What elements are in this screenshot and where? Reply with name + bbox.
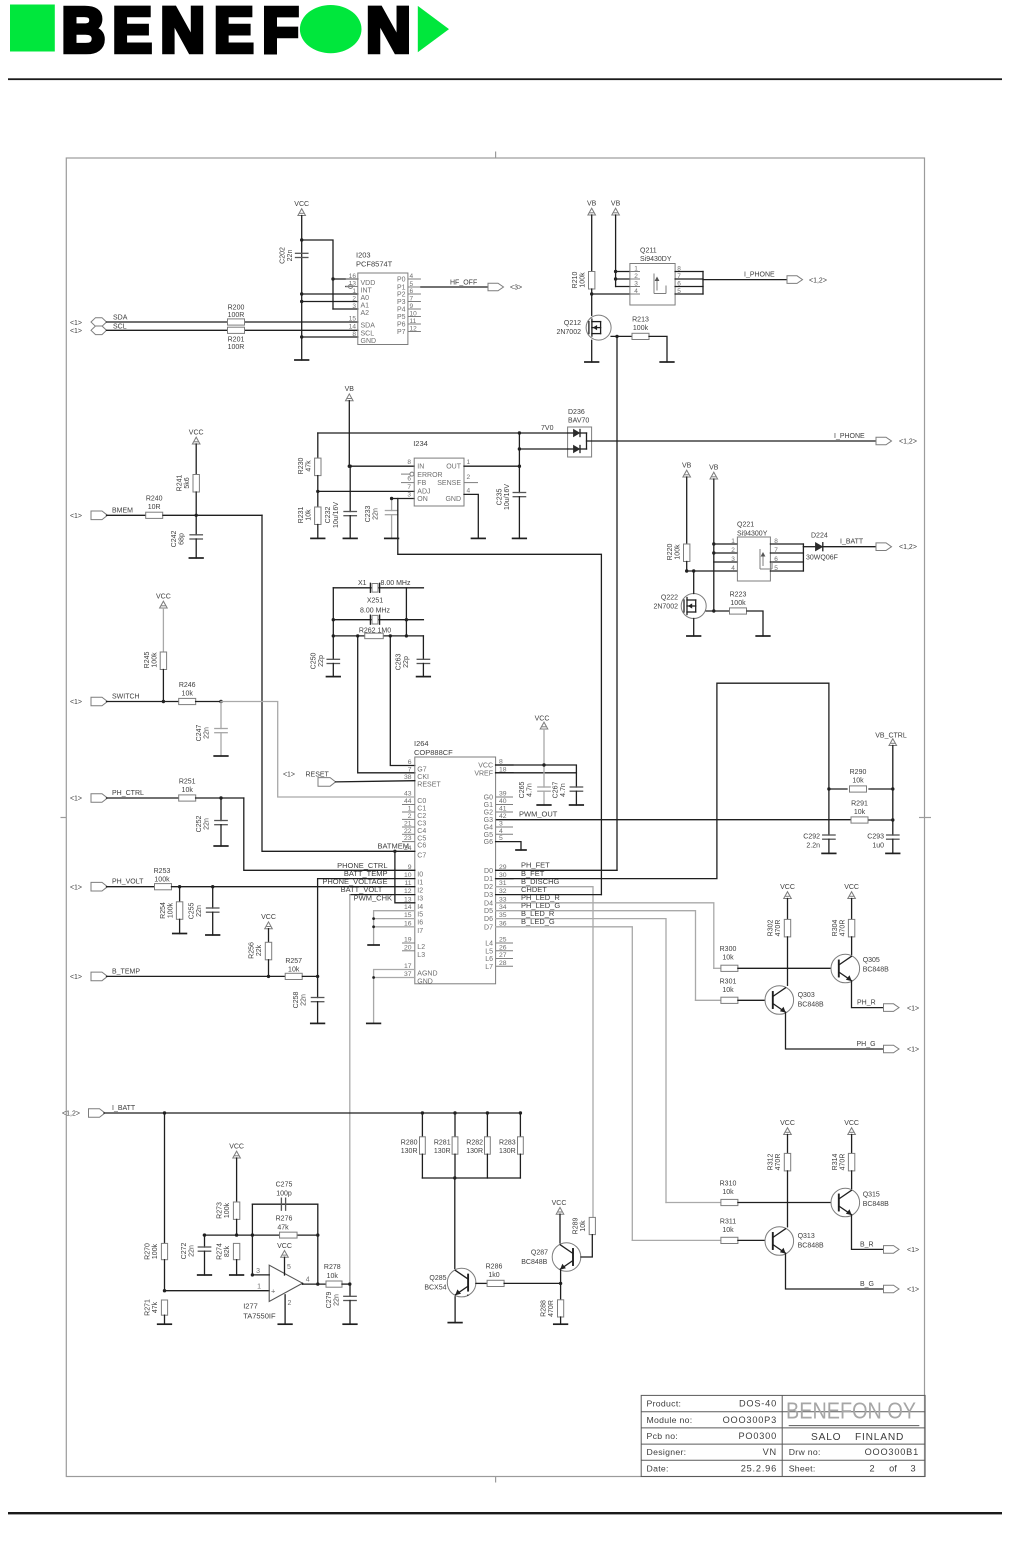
svg-text:130R: 130R (401, 1148, 418, 1155)
svg-text:2: 2 (731, 547, 735, 554)
svg-text:C4: C4 (417, 828, 426, 835)
svg-text:22n: 22n (196, 905, 203, 917)
svg-text:VCC: VCC (277, 1243, 292, 1250)
svg-text:22n: 22n (287, 250, 294, 262)
svg-text:P1: P1 (397, 284, 406, 291)
svg-text:130R: 130R (434, 1148, 451, 1155)
svg-text:100k: 100k (154, 877, 170, 884)
svg-text:10k: 10k (182, 691, 194, 698)
svg-text:PCF8574T: PCF8574T (356, 260, 393, 269)
svg-text:R253: R253 (154, 868, 171, 875)
svg-text:F: F (262, 0, 299, 66)
svg-text:47k: 47k (152, 1301, 159, 1313)
svg-text:1u0: 1u0 (872, 843, 884, 850)
svg-text:22k: 22k (256, 944, 263, 956)
svg-text:N: N (366, 0, 411, 66)
svg-text:Pcb no:: Pcb no: (647, 1431, 679, 1441)
svg-text:BC848B: BC848B (798, 1002, 824, 1009)
svg-text:VB: VB (611, 201, 621, 208)
svg-text:SCL: SCL (361, 330, 375, 337)
svg-text:I1: I1 (417, 880, 423, 887)
svg-text:22n: 22n (189, 1245, 196, 1257)
svg-text:C242: C242 (171, 531, 178, 548)
svg-text:C252: C252 (196, 816, 203, 833)
svg-text:RESET: RESET (417, 782, 441, 789)
svg-text:C255: C255 (189, 903, 196, 920)
svg-text:10k: 10k (722, 1189, 734, 1196)
svg-text:Q212: Q212 (564, 320, 581, 327)
svg-text:1: 1 (352, 288, 356, 295)
svg-text:G3: G3 (484, 817, 493, 824)
svg-text:R310: R310 (720, 1181, 737, 1188)
svg-text:R302: R302 (768, 920, 775, 937)
svg-text:L7: L7 (485, 964, 493, 971)
svg-text:7: 7 (408, 766, 412, 773)
svg-text:Q303: Q303 (798, 992, 815, 999)
svg-text:I_PHONE: I_PHONE (834, 433, 865, 440)
svg-text:10R: 10R (148, 504, 161, 511)
svg-text:C279: C279 (326, 1292, 333, 1309)
svg-text:C275: C275 (276, 1182, 293, 1189)
svg-text:I6: I6 (417, 920, 423, 927)
svg-text:8.00 MHz: 8.00 MHz (381, 580, 411, 587)
svg-text:VCC: VCC (229, 1144, 244, 1151)
svg-text:130R: 130R (499, 1148, 516, 1155)
svg-text:P2: P2 (397, 291, 406, 298)
svg-text:VN: VN (763, 1447, 777, 1457)
svg-text:B_R: B_R (860, 1241, 874, 1248)
svg-text:VB: VB (709, 465, 719, 472)
svg-text:1: 1 (257, 1284, 261, 1291)
svg-text:TA7550IF: TA7550IF (243, 1311, 276, 1320)
svg-text:<1>: <1> (283, 772, 295, 779)
svg-text:I_BATT: I_BATT (840, 539, 864, 546)
svg-text:SENSE: SENSE (437, 480, 461, 487)
svg-text:I264: I264 (414, 739, 429, 748)
svg-text:3: 3 (352, 303, 356, 310)
svg-text:BC848B: BC848B (521, 1259, 547, 1266)
svg-text:VREF: VREF (474, 770, 493, 777)
svg-text:R291: R291 (851, 801, 868, 808)
svg-text:100k: 100k (151, 652, 158, 668)
svg-text:A2: A2 (361, 310, 370, 317)
svg-text:R290: R290 (850, 769, 867, 776)
svg-text:8: 8 (407, 459, 411, 466)
svg-text:G5: G5 (484, 832, 493, 839)
svg-text:PH_VOLT: PH_VOLT (112, 879, 144, 886)
svg-text:22n: 22n (204, 727, 211, 739)
svg-text:Q305: Q305 (863, 957, 880, 964)
svg-text:B_TEMP: B_TEMP (112, 968, 140, 975)
svg-text:100k: 100k (152, 1243, 159, 1259)
svg-text:VCC: VCC (294, 201, 309, 208)
svg-text:B: B (62, 0, 106, 66)
svg-text:5k6: 5k6 (184, 477, 191, 488)
svg-text:C5: C5 (417, 835, 426, 842)
svg-text:22p: 22p (403, 656, 410, 668)
svg-text:D7: D7 (484, 924, 493, 931)
svg-text:R201: R201 (228, 337, 245, 344)
svg-text:Drw no:: Drw no: (789, 1447, 821, 1457)
svg-text:1k0: 1k0 (488, 1272, 499, 1279)
svg-text:C1: C1 (417, 806, 426, 813)
svg-text:R231: R231 (298, 507, 305, 524)
svg-text:<1>: <1> (907, 1047, 919, 1054)
svg-text:C6: C6 (417, 843, 426, 850)
svg-text:I_PHONE: I_PHONE (744, 272, 775, 279)
svg-text:BC848B: BC848B (863, 1201, 889, 1208)
svg-text:<1,2>: <1,2> (809, 278, 827, 285)
svg-text:N: N (160, 0, 205, 66)
svg-text:SCL: SCL (113, 323, 127, 330)
svg-text:P7: P7 (397, 329, 406, 336)
svg-text:100k: 100k (168, 902, 175, 918)
svg-text:FB: FB (417, 480, 426, 487)
svg-text:Module no:: Module no: (647, 1415, 693, 1425)
svg-text:R220: R220 (667, 544, 674, 561)
svg-text:R213: R213 (632, 317, 649, 324)
svg-text:E: E (112, 0, 152, 66)
svg-text:R282: R282 (466, 1140, 483, 1147)
svg-text:3: 3 (499, 821, 503, 828)
svg-text:C293: C293 (867, 834, 884, 841)
svg-text:R230: R230 (298, 458, 305, 475)
svg-text:SALO: SALO (811, 1432, 841, 1443)
svg-text:R257: R257 (285, 958, 302, 965)
svg-text:25: 25 (499, 937, 507, 944)
svg-text:X251: X251 (367, 597, 383, 604)
svg-text:Designer:: Designer: (647, 1447, 687, 1457)
svg-text:VCC: VCC (189, 430, 204, 437)
svg-text:D2: D2 (484, 884, 493, 891)
svg-text:VCC: VCC (535, 716, 550, 723)
svg-text:10k: 10k (288, 967, 300, 974)
svg-text:2: 2 (869, 1463, 874, 1473)
svg-text:<3>: <3> (510, 285, 522, 292)
svg-text:R200: R200 (228, 305, 245, 312)
svg-text:L5: L5 (485, 948, 493, 955)
svg-text:19: 19 (404, 937, 412, 944)
svg-text:P5: P5 (397, 314, 406, 321)
svg-text:BENEFON OY: BENEFON OY (786, 1398, 916, 1424)
svg-text:C3: C3 (417, 820, 426, 827)
svg-text:C235: C235 (497, 489, 504, 506)
svg-text:10k: 10k (327, 1273, 339, 1280)
svg-text:VCC: VCC (552, 1200, 567, 1207)
svg-text:<1>: <1> (70, 699, 82, 706)
svg-text:L6: L6 (485, 956, 493, 963)
svg-text:130R: 130R (466, 1148, 483, 1155)
svg-text:I0: I0 (417, 871, 423, 878)
svg-text:Q287: Q287 (531, 1250, 548, 1257)
svg-text:VB: VB (587, 201, 597, 208)
svg-text:PO0300: PO0300 (738, 1431, 777, 1441)
svg-text:VB: VB (682, 463, 692, 470)
svg-text:C263: C263 (396, 654, 403, 671)
svg-text:L4: L4 (485, 941, 493, 948)
svg-text:R240: R240 (146, 496, 163, 503)
svg-text:R314: R314 (832, 1154, 839, 1171)
svg-text:P4: P4 (397, 306, 406, 313)
svg-text:A1: A1 (361, 302, 370, 309)
svg-text:R286: R286 (486, 1264, 503, 1271)
svg-text:B_G: B_G (860, 1281, 874, 1288)
svg-text:RESET: RESET (306, 772, 330, 779)
svg-text:R289: R289 (573, 1218, 580, 1235)
svg-text:I_BATT: I_BATT (112, 1105, 136, 1112)
svg-text:C2: C2 (417, 813, 426, 820)
svg-text:30WQ06F: 30WQ06F (806, 555, 838, 562)
svg-text:I277: I277 (243, 1302, 258, 1311)
svg-text:PH_R: PH_R (857, 1000, 876, 1007)
svg-text:R304: R304 (832, 920, 839, 937)
svg-text:100k: 100k (730, 600, 746, 607)
svg-text:R273: R273 (217, 1202, 224, 1219)
svg-text:C0: C0 (417, 798, 426, 805)
svg-text:R311: R311 (720, 1219, 736, 1226)
svg-text:R254: R254 (160, 902, 167, 919)
svg-text:P6: P6 (397, 321, 406, 328)
svg-text:1: 1 (408, 806, 412, 813)
svg-text:B_LED_G: B_LED_G (521, 917, 555, 926)
svg-text:100k: 100k (580, 272, 587, 288)
svg-text:82k: 82k (224, 1245, 231, 1257)
svg-text:<1,2>: <1,2> (62, 1111, 80, 1118)
svg-text:D5: D5 (484, 908, 493, 915)
svg-text:I5: I5 (417, 912, 423, 919)
svg-text:22n: 22n (204, 818, 211, 830)
svg-text:BAV70: BAV70 (568, 418, 589, 425)
svg-text:GND: GND (445, 496, 461, 503)
svg-text:BATT_TEMP: BATT_TEMP (344, 869, 388, 878)
svg-text:25.2.96: 25.2.96 (741, 1463, 777, 1473)
svg-text:G2: G2 (484, 810, 493, 817)
svg-text:R276: R276 (276, 1216, 293, 1223)
svg-text:C267: C267 (553, 782, 560, 799)
svg-text:2: 2 (288, 1300, 292, 1307)
svg-text:PH_CTRL: PH_CTRL (112, 790, 144, 797)
svg-text:AGND: AGND (417, 971, 437, 978)
svg-text:D224: D224 (811, 533, 828, 540)
svg-text:VCC: VCC (478, 763, 493, 770)
svg-text:L2: L2 (417, 944, 425, 951)
svg-text:R256: R256 (249, 942, 256, 959)
svg-text:VCC: VCC (780, 1120, 795, 1127)
svg-text:D3: D3 (484, 892, 493, 899)
svg-text:15: 15 (349, 315, 357, 322)
svg-text:R312: R312 (768, 1154, 775, 1171)
svg-text:X1: X1 (358, 580, 367, 587)
svg-text:10k: 10k (722, 955, 734, 962)
svg-text:<1>: <1> (70, 328, 82, 335)
svg-text:R262 1M0: R262 1M0 (359, 627, 391, 634)
svg-text:10k: 10k (580, 1220, 587, 1232)
svg-text:R300: R300 (720, 946, 737, 953)
svg-text:A0: A0 (361, 295, 370, 302)
svg-text:10u/16V: 10u/16V (333, 502, 340, 528)
svg-text:VB_CTRL: VB_CTRL (875, 733, 907, 740)
svg-text:8: 8 (352, 331, 356, 338)
svg-text:<1,2>: <1,2> (899, 544, 917, 551)
svg-text:2: 2 (408, 813, 412, 820)
svg-text:BCX54: BCX54 (424, 1285, 446, 1292)
svg-text:47k: 47k (306, 460, 313, 472)
svg-text:26: 26 (499, 944, 507, 951)
svg-text:SWITCH: SWITCH (112, 694, 140, 701)
svg-text:ON: ON (417, 496, 428, 503)
svg-text:27: 27 (499, 952, 507, 959)
svg-text:39: 39 (499, 791, 507, 798)
svg-text:R270: R270 (145, 1243, 152, 1260)
svg-text:R278: R278 (324, 1264, 341, 1271)
svg-text:I203: I203 (356, 251, 371, 260)
svg-text:42: 42 (499, 813, 507, 820)
svg-text:I2: I2 (417, 888, 423, 895)
svg-text:3: 3 (910, 1463, 915, 1473)
svg-text:10k: 10k (306, 509, 313, 521)
svg-text:10k: 10k (722, 987, 734, 994)
svg-text:22n: 22n (301, 994, 308, 1006)
svg-text:<1>: <1> (907, 1247, 919, 1254)
svg-text:1: 1 (467, 459, 471, 466)
svg-text:10k: 10k (722, 1227, 734, 1234)
svg-text:I4: I4 (417, 904, 423, 911)
svg-text:47k: 47k (277, 1224, 289, 1231)
svg-text:R241: R241 (177, 475, 184, 492)
svg-text:470R: 470R (775, 920, 782, 937)
svg-text:VB: VB (345, 386, 355, 393)
svg-text:GND: GND (417, 979, 433, 986)
svg-text:Product:: Product: (647, 1399, 682, 1409)
svg-text:CKI: CKI (417, 774, 429, 781)
svg-text:100p: 100p (276, 1190, 292, 1197)
svg-text:4: 4 (731, 565, 735, 572)
svg-text:INT: INT (361, 287, 373, 294)
svg-text:14: 14 (349, 323, 357, 330)
svg-text:<1>: <1> (70, 320, 82, 327)
svg-text:22p: 22p (318, 655, 325, 667)
svg-text:7: 7 (407, 484, 411, 491)
svg-text:C247: C247 (196, 725, 203, 742)
svg-text:68p: 68p (179, 533, 186, 545)
svg-text:22n: 22n (373, 508, 380, 520)
svg-text:C7: C7 (417, 852, 426, 859)
svg-text:R274: R274 (217, 1243, 224, 1260)
svg-text:VCC: VCC (844, 1120, 859, 1127)
svg-text:Sheet:: Sheet: (789, 1463, 816, 1473)
svg-text:OOO300B1: OOO300B1 (865, 1447, 919, 1457)
svg-text:C265: C265 (519, 782, 526, 799)
svg-text:<1>: <1> (70, 796, 82, 803)
svg-text:R271: R271 (145, 1299, 152, 1316)
svg-text:20: 20 (404, 944, 412, 951)
svg-text:4: 4 (499, 828, 503, 835)
svg-text:R251: R251 (179, 779, 196, 786)
svg-text:C233: C233 (365, 506, 372, 523)
svg-text:Q211: Q211 (640, 248, 657, 255)
svg-text:100k: 100k (633, 325, 649, 332)
svg-text:PWM_OUT: PWM_OUT (519, 810, 558, 819)
svg-text:3: 3 (407, 492, 411, 499)
svg-text:22: 22 (404, 828, 412, 835)
svg-text:ERROR: ERROR (417, 472, 442, 479)
svg-text:BATMEM: BATMEM (377, 842, 409, 851)
svg-text:Q285: Q285 (429, 1275, 446, 1282)
svg-text:D6: D6 (484, 916, 493, 923)
svg-text:R301: R301 (720, 979, 737, 986)
svg-text:100R: 100R (228, 312, 245, 319)
svg-text:C250: C250 (311, 653, 318, 670)
svg-text:SDA: SDA (113, 315, 128, 322)
svg-text:<1>: <1> (907, 1005, 919, 1012)
svg-text:VDD: VDD (361, 280, 376, 287)
svg-text:G1: G1 (484, 802, 493, 809)
svg-text:2N7002: 2N7002 (556, 329, 581, 336)
svg-text:I7: I7 (417, 928, 423, 935)
svg-text:470R: 470R (548, 1300, 555, 1317)
svg-text:C272: C272 (181, 1243, 188, 1260)
svg-text:of: of (889, 1463, 897, 1473)
svg-text:470R: 470R (840, 1154, 847, 1171)
svg-text:P0: P0 (397, 276, 406, 283)
svg-text:40: 40 (499, 798, 507, 805)
svg-text:Q313: Q313 (798, 1233, 815, 1240)
svg-text:<1>: <1> (70, 974, 82, 981)
svg-text:DOS-40: DOS-40 (739, 1399, 777, 1409)
svg-text:Si94300Y: Si94300Y (737, 531, 768, 538)
svg-text:VCC: VCC (780, 884, 795, 891)
svg-text:7V0: 7V0 (541, 425, 554, 432)
svg-text:2.2n: 2.2n (806, 843, 820, 850)
svg-text:PH_G: PH_G (857, 1041, 876, 1048)
svg-text:1: 1 (731, 538, 735, 545)
svg-text:<1,2>: <1,2> (899, 439, 917, 446)
svg-text:22n: 22n (334, 1294, 341, 1306)
svg-text:L3: L3 (417, 952, 425, 959)
svg-text:FINLAND: FINLAND (855, 1432, 904, 1443)
svg-text:<1>: <1> (70, 884, 82, 891)
svg-text:R210: R210 (572, 272, 579, 289)
svg-text:IN: IN (417, 464, 424, 471)
svg-text:5: 5 (287, 1264, 291, 1271)
svg-text:C232: C232 (325, 507, 332, 524)
svg-text:Si9430DY: Si9430DY (640, 256, 672, 263)
svg-text:10k: 10k (852, 778, 864, 785)
svg-text:Q315: Q315 (863, 1192, 880, 1199)
svg-text:Q221: Q221 (737, 522, 754, 529)
svg-text:C292: C292 (803, 834, 820, 841)
svg-text:4: 4 (306, 1276, 310, 1283)
svg-text:3: 3 (256, 1268, 260, 1275)
svg-text:G0: G0 (484, 795, 493, 802)
svg-text:P3: P3 (397, 299, 406, 306)
svg-text:8.00 MHz: 8.00 MHz (360, 607, 390, 614)
svg-text:<1>: <1> (907, 1287, 919, 1294)
svg-text:OOO300P3: OOO300P3 (723, 1415, 777, 1425)
svg-text:R280: R280 (401, 1140, 418, 1147)
svg-text:+: + (271, 1286, 276, 1295)
svg-text:SDA: SDA (361, 322, 376, 329)
svg-text:C202: C202 (280, 247, 287, 264)
svg-text:100k: 100k (224, 1202, 231, 1218)
svg-text:BC848B: BC848B (863, 967, 889, 974)
svg-text:OUT: OUT (446, 464, 462, 471)
svg-text:R223: R223 (730, 592, 747, 599)
svg-text:6: 6 (407, 476, 411, 483)
svg-text:D4: D4 (484, 900, 493, 907)
svg-text:C258: C258 (293, 992, 300, 1009)
svg-text:VCC: VCC (156, 594, 171, 601)
